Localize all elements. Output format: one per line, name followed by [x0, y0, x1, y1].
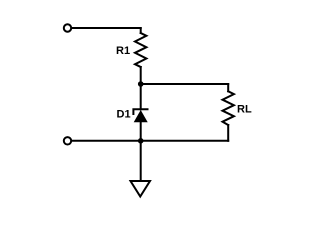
svg-text:RL: RL	[237, 104, 252, 116]
svg-text:D1: D1	[117, 109, 131, 121]
svg-text:R1: R1	[116, 45, 130, 57]
